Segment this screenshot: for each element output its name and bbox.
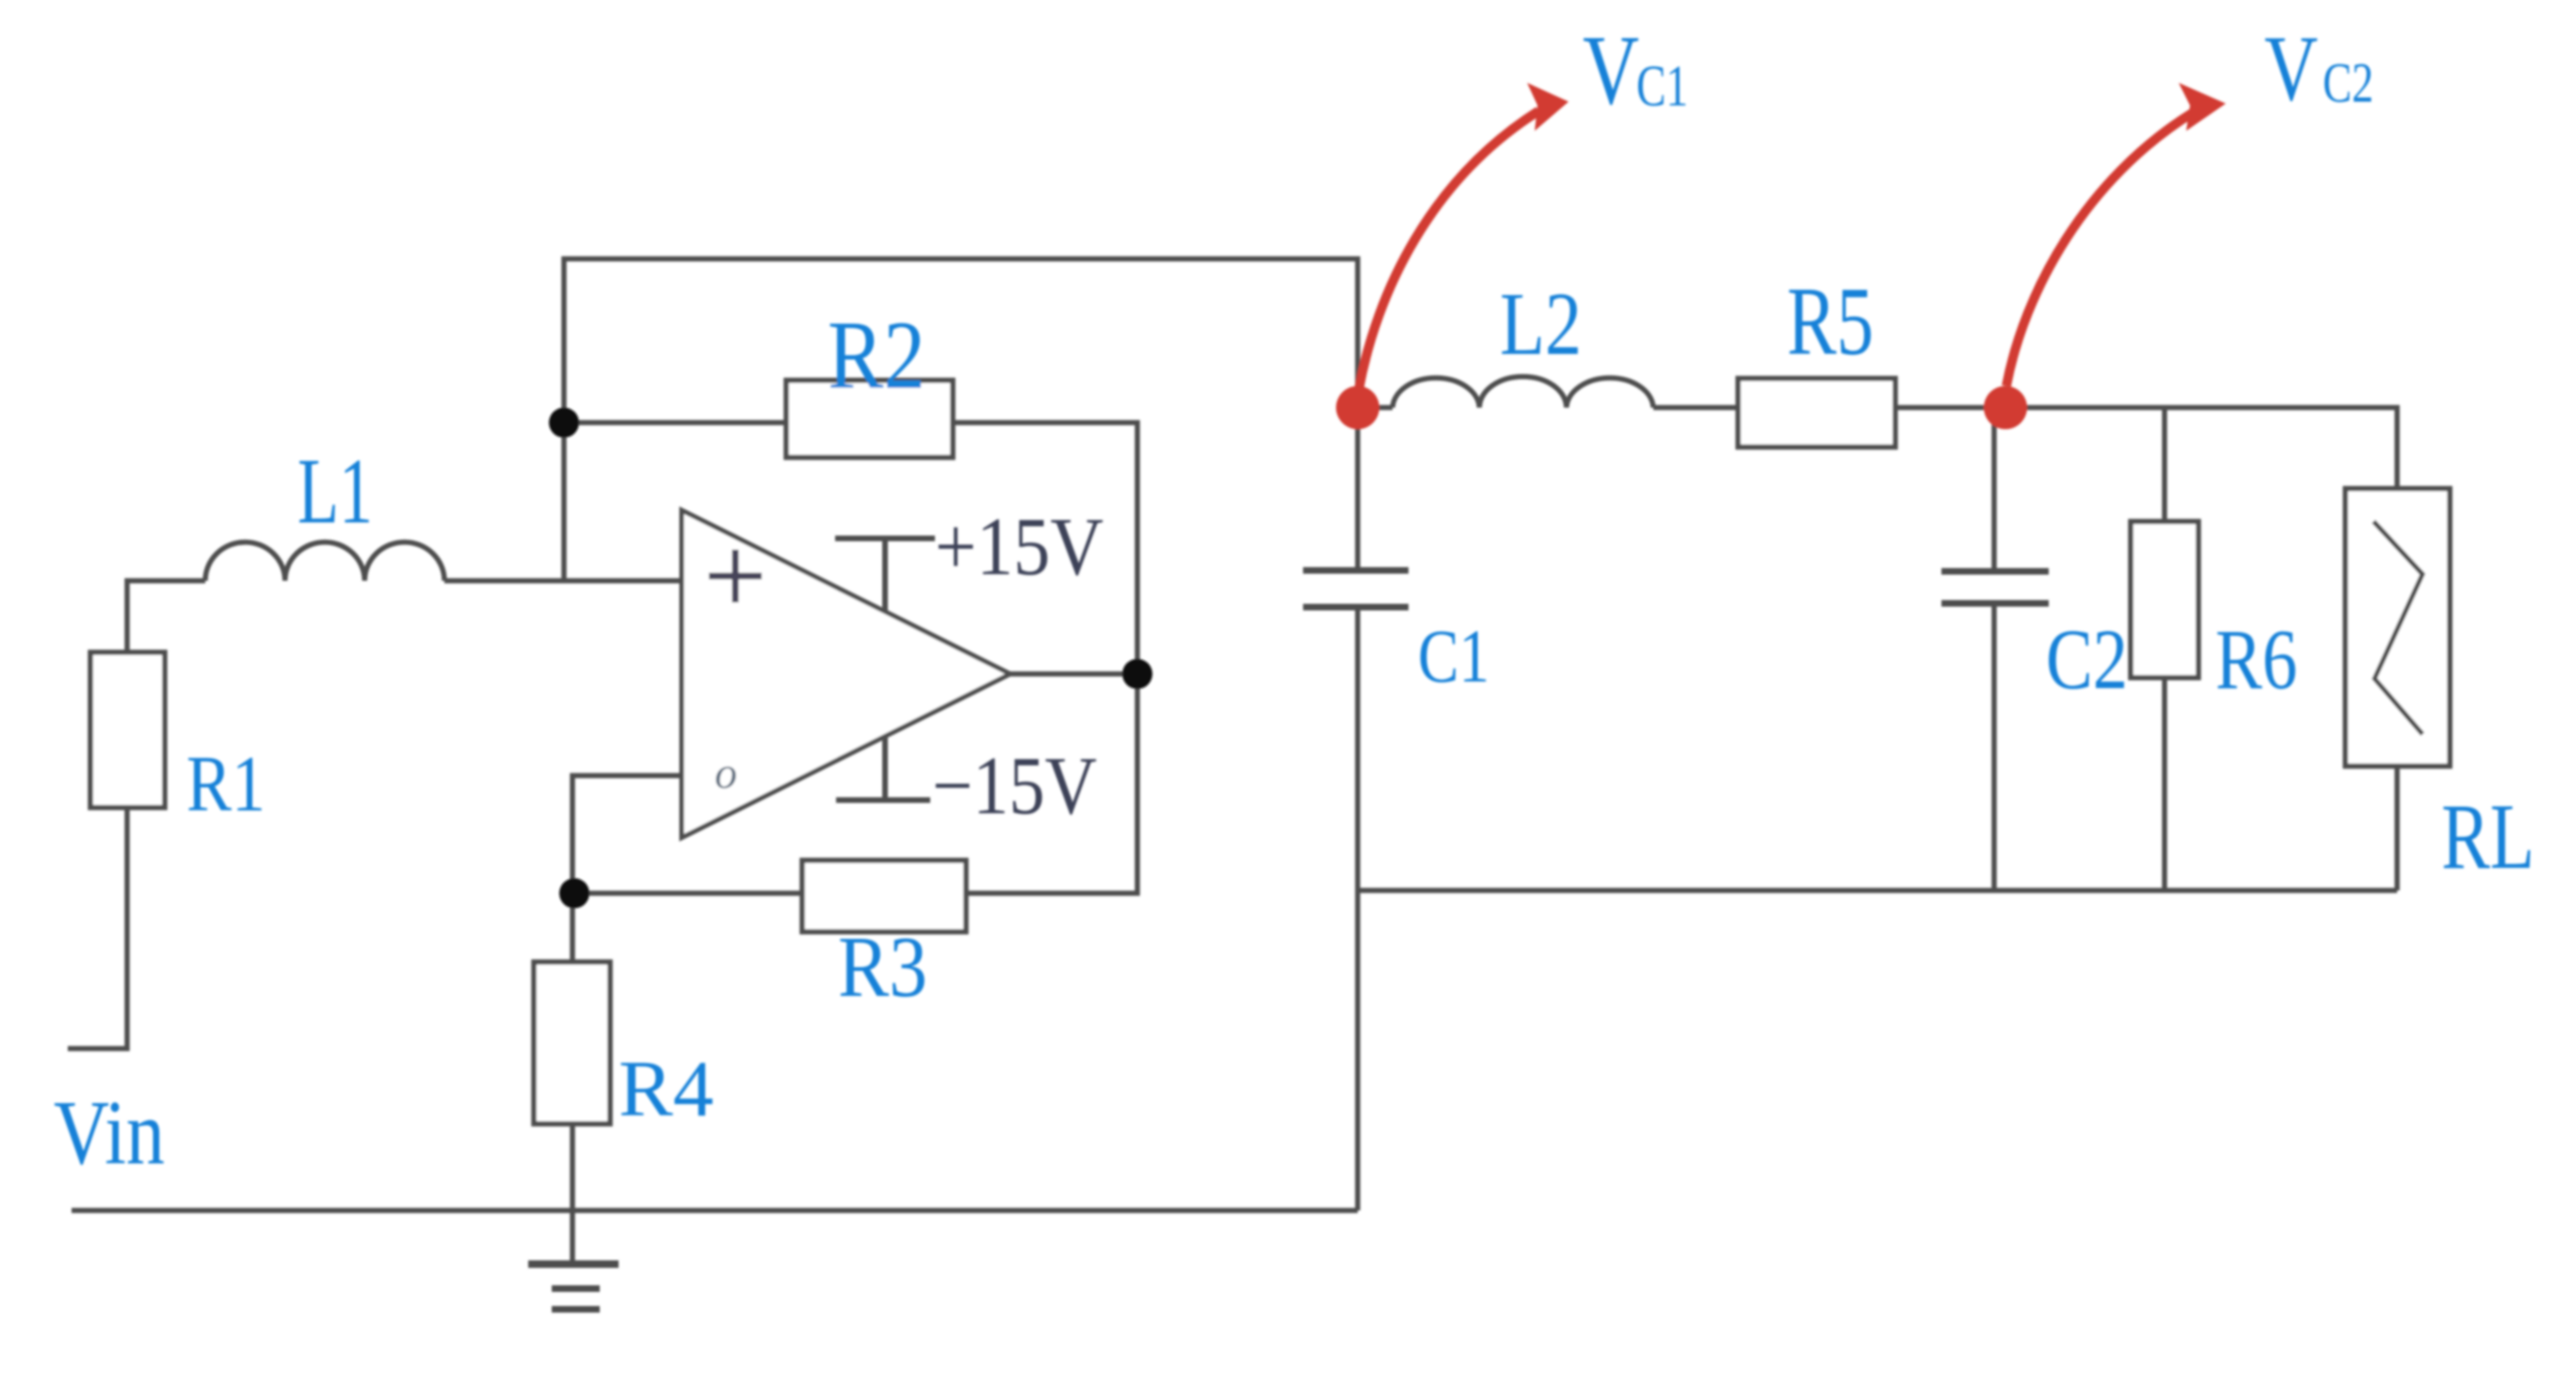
svg-text:L1: L1	[298, 439, 373, 543]
svg-text:R5: R5	[1787, 267, 1874, 376]
wire op-amp output	[1010, 671, 1137, 677]
node junction at op-amp output	[1122, 659, 1152, 689]
inductor L1	[205, 542, 444, 581]
svg-text:o: o	[715, 748, 737, 798]
wire RL bottom stem	[2394, 766, 2400, 890]
svg-text:V: V	[2264, 16, 2318, 120]
node VC1 (red)	[1336, 386, 1379, 429]
wire ground stem	[570, 1210, 575, 1264]
wire op-amp inverting input	[572, 776, 682, 893]
+15V supply tap	[835, 538, 935, 612]
svg-text:Vin: Vin	[54, 1082, 165, 1184]
wire R4 bottom lead	[570, 1124, 575, 1210]
capacitor C2	[1941, 571, 2049, 603]
wire node1 to L2	[1358, 405, 1393, 410]
capacitor C1	[1303, 570, 1409, 607]
wire op-amp + input	[444, 578, 682, 584]
VC2 probe arrow (red)	[2006, 83, 2226, 386]
ground	[528, 1264, 619, 1309]
wire R4 top lead	[570, 893, 575, 962]
node junction at R2 left	[549, 408, 579, 438]
op-amp U1	[682, 510, 1010, 838]
wire C2 top stem	[1991, 408, 1997, 571]
wire L1 left lead	[127, 581, 205, 652]
wire R2 left lead	[564, 420, 786, 425]
svg-text:L2: L2	[1500, 274, 1582, 374]
inductor L2	[1393, 377, 1653, 408]
svg-text:C2: C2	[2046, 612, 2128, 707]
svg-text:RL: RL	[2441, 784, 2535, 889]
wire R6 top stem	[2162, 408, 2167, 521]
resistor R4	[534, 962, 610, 1124]
wire R1 bottom lead to Vin stub	[68, 808, 127, 1049]
wire bottom rail	[72, 1208, 1358, 1213]
wire middle rail right	[1358, 888, 2397, 893]
wire node2 to RL top	[2005, 408, 2397, 489]
node VC2 (red)	[1984, 386, 2027, 429]
svg-text:+15V: +15V	[935, 502, 1103, 593]
svg-text:C2: C2	[2323, 52, 2374, 114]
wire R2 right lead and vertical to R3	[953, 423, 1137, 893]
svg-text:C1: C1	[1636, 55, 1688, 119]
wire C1 bottom stem	[1355, 607, 1360, 1210]
svg-text:R2: R2	[828, 301, 926, 409]
svg-text:R6: R6	[2215, 612, 2297, 707]
wire feedback loop top	[564, 259, 1358, 581]
resistor RL	[2345, 489, 2450, 766]
node junction at R3/R4	[559, 878, 589, 908]
-15V supply tap	[836, 737, 930, 800]
svg-text:R4: R4	[619, 1045, 714, 1133]
wire C1 top stem	[1355, 408, 1360, 570]
resistor R3	[802, 860, 966, 932]
wire R3 left lead	[574, 890, 802, 896]
resistor R1	[90, 652, 165, 808]
svg-text:R1: R1	[186, 740, 266, 828]
svg-text:C1: C1	[1418, 616, 1489, 698]
wire R6 bottom stem	[2162, 678, 2167, 890]
VC1 probe arrow (red)	[1359, 83, 1569, 391]
resistor R6	[2131, 521, 2198, 678]
svg-text:−15V: −15V	[932, 741, 1097, 832]
resistor R2	[786, 380, 953, 457]
svg-text:V: V	[1583, 15, 1639, 125]
wire C2 bottom stem	[1991, 603, 1997, 890]
resistor R5	[1738, 378, 1895, 447]
RL zigzag mark	[2374, 521, 2423, 734]
svg-text:R3: R3	[838, 919, 927, 1015]
op-amp plus input marker	[709, 550, 762, 602]
wire R5 to node2	[1895, 405, 2005, 410]
wire L2 to R5	[1653, 405, 1738, 410]
